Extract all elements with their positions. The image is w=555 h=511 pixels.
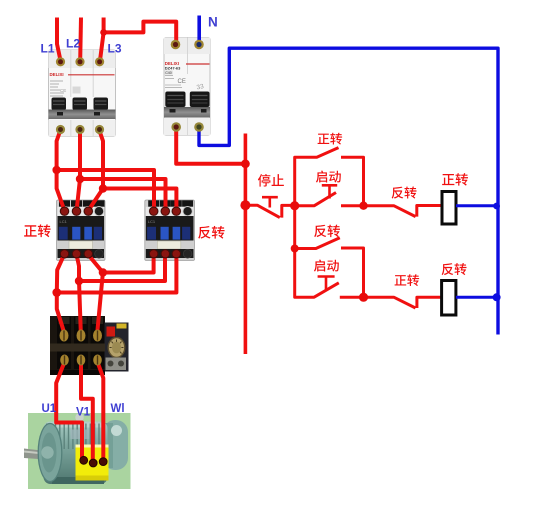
QF1 din-rail band bbox=[49, 110, 116, 120]
QF1 top terminal screws bbox=[56, 57, 104, 66]
label stop bbox=[258, 174, 284, 187]
FR rating label bbox=[117, 324, 127, 329]
wire KM1 out3 to node E3 and relay bbox=[88, 254, 103, 332]
KM2 aux seal-in contact branch bbox=[295, 238, 364, 297]
wire QF1 pole3 output bbox=[88, 131, 103, 211]
svg-text:L3: L3 bbox=[108, 42, 122, 56]
node phase1 bus bbox=[52, 166, 60, 174]
KM2 NC interlock contact bbox=[364, 206, 443, 217]
start1 button operator bbox=[322, 185, 337, 198]
wire relay out V1 to motor bbox=[81, 362, 93, 462]
circuit breaker QF2 2-pole DZ47-63 body bbox=[164, 38, 210, 136]
QF2 bottom terminal screws bbox=[171, 122, 181, 132]
KM1 NC interlock contact bbox=[364, 297, 442, 308]
wire node A to node C bbox=[293, 206, 296, 249]
wire neutral loop (blue) bbox=[199, 48, 498, 334]
node E2 bbox=[75, 277, 83, 285]
wire QF1 pole1 output bbox=[57, 130, 65, 211]
FR bottom terminal screws bbox=[60, 355, 102, 366]
node phase3 bus bbox=[99, 184, 107, 192]
QF2 top terminal screws bbox=[171, 40, 181, 50]
label start1 bbox=[316, 171, 341, 183]
node A bbox=[290, 201, 299, 210]
svg-text:LC1: LC1 bbox=[60, 219, 68, 224]
wire relay out W1 to motor bbox=[98, 362, 104, 461]
start2 button NO contact bbox=[295, 249, 364, 298]
KM1 KM2 wired screw heads bbox=[60, 207, 180, 258]
node L3 tap bbox=[100, 29, 107, 36]
QF2 toggle handles bbox=[165, 92, 209, 108]
label forward aux contact bbox=[318, 133, 342, 145]
FR adjustment dial bbox=[108, 338, 125, 358]
label reverse NC interlock bbox=[392, 187, 417, 199]
QF1 bottom terminal screws bbox=[56, 125, 104, 134]
FR reset button bbox=[107, 327, 116, 337]
start1 button NO contact bbox=[295, 193, 364, 206]
svg-text:L1: L1 bbox=[41, 42, 55, 56]
wire L1 feed to QF1 bbox=[57, 18, 61, 61]
wire KM1 out1 to node E1 and relay bbox=[57, 254, 65, 332]
svg-text:CE: CE bbox=[178, 79, 186, 85]
svg-text:U1: U1 bbox=[42, 403, 57, 415]
motor mounting panel bbox=[28, 413, 131, 489]
label reverse coil bbox=[442, 263, 467, 275]
label forward (KM1) bbox=[24, 224, 50, 237]
wire L2 feed to QF1 bbox=[78, 18, 83, 61]
node E3 crossover bbox=[99, 268, 107, 276]
motor terminal studs bbox=[80, 456, 107, 467]
svg-text:LC1: LC1 bbox=[148, 219, 156, 224]
node B bbox=[359, 202, 367, 210]
svg-text:CE: CE bbox=[60, 88, 66, 93]
wire coil2 to neutral (blue) bbox=[456, 296, 498, 299]
wire bus phase3 to KM2 bbox=[103, 189, 176, 211]
wire QF1 pole2 output bbox=[77, 131, 80, 211]
node stop tap bbox=[240, 200, 250, 210]
node neutral coil1 (blue) bbox=[493, 203, 500, 210]
label reverse (KM2) bbox=[198, 226, 224, 239]
coil KM1 forward bbox=[442, 192, 456, 225]
svg-text:C40: C40 bbox=[165, 71, 172, 75]
motor M lifting eye bbox=[75, 413, 83, 421]
wire KM2 out2 to E2 bbox=[79, 254, 165, 281]
thermal overload relay FR body bbox=[50, 316, 129, 375]
wire control rail vertical bbox=[244, 134, 248, 355]
wire L3 feed to QF1 bbox=[100, 18, 104, 61]
motor M finned frame bbox=[44, 422, 108, 485]
node E1 crossover bbox=[52, 288, 61, 297]
node neutral coil2 (blue) bbox=[493, 293, 501, 301]
motor M shaft bbox=[24, 449, 46, 460]
node phase2 bus bbox=[76, 175, 84, 183]
node D bbox=[359, 293, 368, 302]
wire coil1 to neutral (blue) bbox=[456, 204, 498, 207]
coil KM2 reverse bbox=[442, 281, 456, 316]
stop button operator bbox=[262, 197, 278, 207]
wire relay out U1 to motor bbox=[56, 362, 82, 459]
label reverse aux contact bbox=[314, 225, 340, 238]
svg-text:DELIXI: DELIXI bbox=[50, 72, 64, 77]
svg-text:V1: V1 bbox=[76, 407, 91, 419]
svg-text:N: N bbox=[208, 15, 218, 30]
motor M rear end-bell bbox=[103, 420, 128, 470]
circuit breaker QF1 3-pole DZ47-60 body bbox=[49, 50, 116, 137]
svg-text:L2: L2 bbox=[66, 37, 80, 51]
FR auxiliary contact terminals bbox=[106, 358, 127, 371]
KM1 aux seal-in contact branch bbox=[295, 148, 364, 206]
wire KM1 out2 to node E2 and relay bbox=[76, 254, 80, 332]
node C bbox=[291, 245, 299, 253]
wire bus phase2 to KM2 bbox=[80, 179, 166, 211]
label forward NC interlock bbox=[395, 274, 419, 286]
start2 button operator bbox=[318, 277, 335, 291]
label forward coil bbox=[442, 173, 468, 186]
contactor KM2 reverse body bbox=[145, 200, 195, 261]
FR top terminal screws bbox=[60, 330, 103, 342]
svg-text:Wl: Wl bbox=[111, 403, 125, 415]
node control feed corner bbox=[241, 159, 250, 168]
contactor KM1 forward body bbox=[57, 200, 106, 261]
svg-text:DZ47-63: DZ47-63 bbox=[165, 66, 181, 71]
wire bus phase1 to KM2 bbox=[57, 170, 154, 211]
wire KM2 out1 crossover to E3 bbox=[103, 254, 154, 273]
wire QF2 output to control rail bbox=[176, 128, 245, 164]
motor terminal box bbox=[76, 445, 109, 481]
QF2 din-rail band bbox=[164, 107, 210, 118]
stop button FR wire and NC contact bbox=[245, 205, 294, 217]
wire L3 tap to QF2 bbox=[104, 22, 177, 44]
QF1 toggle handles bbox=[52, 98, 109, 111]
label start2 bbox=[314, 260, 339, 272]
wire KM2 out3 crossover to E1 bbox=[57, 254, 177, 293]
motor M front end-bell bbox=[38, 424, 62, 482]
wire N feed to QF2 (blue) bbox=[197, 16, 201, 44]
